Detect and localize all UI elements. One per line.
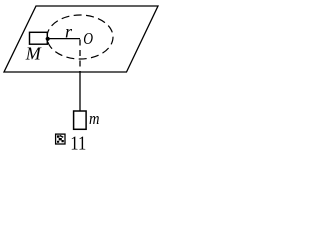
- svg-text:M: M: [25, 44, 42, 64]
- table surface (parallelogram): [4, 6, 158, 72]
- block M: [30, 32, 48, 44]
- string through hole, dashed above table: [79, 40, 81, 73]
- svg-text:O: O: [83, 29, 93, 48]
- circular path (dashed ellipse): [47, 15, 113, 59]
- caption glyph 图 (drawn): [56, 134, 65, 144]
- attachment dot on block M: [46, 37, 50, 41]
- string M to hole O (radius r): [48, 38, 80, 40]
- svg-text:r: r: [65, 22, 73, 42]
- svg-text:m: m: [89, 109, 100, 128]
- svg-text:11: 11: [70, 132, 86, 151]
- string below table to mass m: [79, 71, 81, 111]
- hanging block m: [74, 111, 87, 129]
